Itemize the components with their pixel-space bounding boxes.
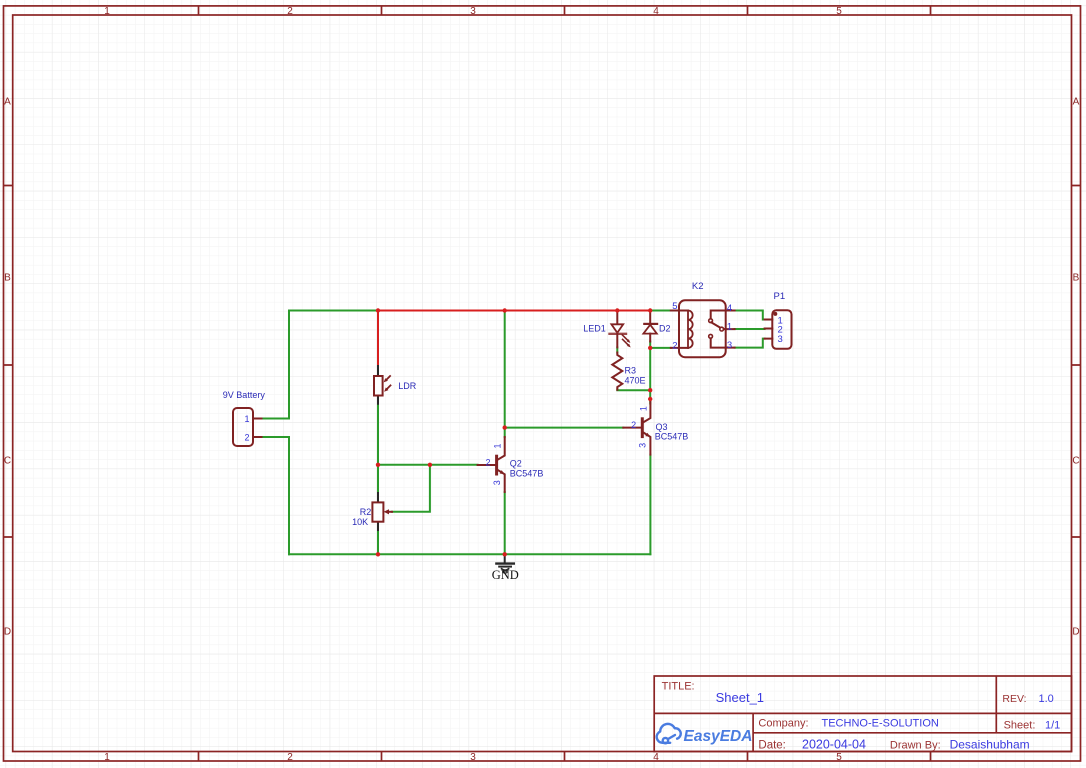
svg-text:5: 5 <box>836 6 842 17</box>
svg-text:EasyEDA: EasyEDA <box>684 728 753 745</box>
LED LED1 <box>583 311 631 348</box>
wire <box>504 311 506 438</box>
svg-text:BC547B: BC547B <box>510 469 544 479</box>
wire <box>288 437 290 554</box>
svg-text:5: 5 <box>836 752 842 763</box>
wire <box>262 436 290 438</box>
svg-text:Date:: Date: <box>758 739 786 751</box>
junction <box>376 552 380 556</box>
transistor Q3 <box>623 400 688 455</box>
svg-text:P1: P1 <box>774 291 786 302</box>
wire <box>377 404 379 493</box>
svg-text:TITLE:: TITLE: <box>662 681 695 693</box>
svg-text:3: 3 <box>492 480 502 485</box>
svg-text:2020-04-04: 2020-04-04 <box>802 737 866 751</box>
resistor R3 470E <box>612 353 645 390</box>
wire <box>505 427 624 429</box>
EasyEDA logo <box>657 724 681 743</box>
wire <box>649 342 651 404</box>
wire <box>392 465 430 512</box>
svg-text:TECHNO-E-SOLUTION: TECHNO-E-SOLUTION <box>822 717 939 729</box>
svg-text:1: 1 <box>727 322 732 333</box>
wire <box>377 530 379 554</box>
junction <box>615 308 619 312</box>
wire <box>735 339 765 348</box>
svg-text:Q2: Q2 <box>510 458 522 468</box>
svg-text:Sheet_1: Sheet_1 <box>716 690 764 705</box>
svg-text:4: 4 <box>653 6 659 17</box>
svg-text:4: 4 <box>727 303 732 314</box>
wire <box>378 464 478 466</box>
junction <box>503 552 507 556</box>
svg-text:R2: R2 <box>360 507 372 517</box>
junction <box>648 397 652 401</box>
ground GND <box>492 554 519 582</box>
wire <box>735 311 765 320</box>
photoresistor LDR <box>374 366 417 404</box>
wire <box>616 347 618 352</box>
svg-text:3: 3 <box>470 6 476 17</box>
junction <box>503 425 507 429</box>
svg-text:2: 2 <box>287 6 293 17</box>
svg-text:Desaishubham: Desaishubham <box>950 737 1030 751</box>
wire <box>288 311 290 419</box>
svg-text:1: 1 <box>493 443 503 448</box>
svg-text:3: 3 <box>638 443 648 448</box>
svg-text:LDR: LDR <box>398 381 417 391</box>
svg-text:2: 2 <box>672 341 677 352</box>
svg-text:3: 3 <box>727 340 732 351</box>
junction <box>648 388 652 392</box>
connector 9V Battery <box>223 390 266 446</box>
svg-text:C: C <box>4 456 11 467</box>
junction <box>376 308 380 312</box>
svg-text:1: 1 <box>244 414 249 424</box>
junction <box>376 463 380 467</box>
svg-text:3: 3 <box>470 752 476 763</box>
svg-text:4: 4 <box>653 752 659 763</box>
svg-text:BC547B: BC547B <box>655 431 689 441</box>
junction <box>648 308 652 312</box>
wire (red net) <box>377 311 379 367</box>
svg-text:D2: D2 <box>659 323 671 333</box>
svg-text:REV:: REV: <box>1002 693 1026 705</box>
wire <box>649 455 651 555</box>
wire <box>504 492 506 554</box>
svg-text:Drawn By:: Drawn By: <box>890 739 941 751</box>
diode D2 <box>643 311 670 342</box>
svg-text:1/1: 1/1 <box>1045 720 1060 732</box>
junction <box>503 308 507 312</box>
wire <box>650 310 671 312</box>
svg-text:GND: GND <box>492 568 519 582</box>
svg-text:B: B <box>1073 273 1080 284</box>
svg-text:A: A <box>4 97 11 108</box>
svg-text:2: 2 <box>631 420 636 430</box>
potentiometer R2 10K <box>352 493 392 530</box>
wire <box>650 347 671 349</box>
wire <box>262 418 290 420</box>
svg-text:2: 2 <box>287 752 293 763</box>
svg-text:2: 2 <box>485 458 490 468</box>
svg-text:10K: 10K <box>352 517 368 527</box>
wire <box>289 553 650 555</box>
wire <box>289 310 378 312</box>
wire (red net) <box>378 310 650 312</box>
svg-text:A: A <box>1073 97 1080 108</box>
svg-text:1: 1 <box>638 406 648 411</box>
transistor Q2 <box>478 437 544 492</box>
svg-text:9V Battery: 9V Battery <box>223 390 266 400</box>
svg-text:R3: R3 <box>625 365 637 375</box>
svg-text:3: 3 <box>778 334 783 345</box>
svg-text:1: 1 <box>104 752 110 763</box>
svg-text:C: C <box>1072 456 1079 467</box>
wire <box>617 389 650 392</box>
junction <box>428 463 432 467</box>
svg-text:1.0: 1.0 <box>1039 693 1054 705</box>
junction <box>648 346 652 350</box>
svg-text:K2: K2 <box>692 281 704 292</box>
wire <box>735 328 765 330</box>
CIRCUIT <box>223 281 792 582</box>
svg-text:LED1: LED1 <box>583 323 606 333</box>
svg-text:Company:: Company: <box>758 717 808 729</box>
svg-text:B: B <box>4 273 11 284</box>
svg-text:D: D <box>4 627 11 638</box>
svg-text:1: 1 <box>104 6 110 17</box>
TITLE BLOCK <box>654 676 1071 752</box>
svg-text:5: 5 <box>672 301 677 312</box>
svg-text:2: 2 <box>244 433 249 443</box>
relay K2 <box>671 281 735 357</box>
connector P1 <box>765 291 792 349</box>
svg-text:D: D <box>1072 627 1079 638</box>
svg-text:Sheet:: Sheet: <box>1004 720 1036 732</box>
svg-text:470E: 470E <box>625 376 646 386</box>
